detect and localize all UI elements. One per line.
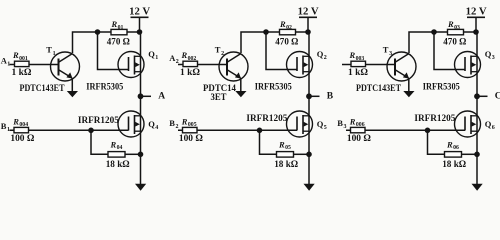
wire rail lower xyxy=(140,96,142,185)
svg-text:2: 2 xyxy=(221,51,224,57)
input B2 label xyxy=(169,118,178,130)
label Q5 xyxy=(317,119,327,131)
label R03 xyxy=(447,19,460,31)
p-MOSFET Q2 IRFR5305 xyxy=(287,52,313,78)
label T3 xyxy=(383,45,392,57)
svg-text:IRFR1205: IRFR1205 xyxy=(414,114,455,124)
transistor T1 (NPN) xyxy=(51,52,80,81)
svg-text:470 Ω: 470 Ω xyxy=(107,38,130,48)
svg-text:470 Ω: 470 Ω xyxy=(443,38,466,48)
svg-text:IRFR1205: IRFR1205 xyxy=(246,114,287,124)
svg-text:B: B xyxy=(1,121,7,131)
label Q1 xyxy=(148,49,158,61)
label Q3 xyxy=(485,49,495,61)
node junction (gate / pulldown) xyxy=(257,128,263,134)
ground arrow at rail bottom xyxy=(304,184,315,191)
value 1 kOhm xyxy=(348,68,368,78)
label T1 xyxy=(46,45,55,57)
svg-text:02: 02 xyxy=(286,25,292,31)
resistor R004 100 xyxy=(14,127,29,132)
value 470 Ohm xyxy=(443,38,466,48)
svg-text:6: 6 xyxy=(492,125,495,131)
svg-text:1 kΩ: 1 kΩ xyxy=(180,68,200,78)
svg-text:IRFR5305: IRFR5305 xyxy=(423,82,460,92)
label R003 xyxy=(349,50,365,62)
svg-text:R: R xyxy=(181,50,188,60)
svg-text:003: 003 xyxy=(356,56,365,62)
resistor R006 100 xyxy=(351,127,366,132)
wire input to Q gate xyxy=(10,129,129,131)
p-MOSFET Q1 IRFR5305 xyxy=(118,52,144,78)
svg-text:A: A xyxy=(158,92,165,102)
svg-text:R: R xyxy=(111,19,118,29)
label IRFR5305 xyxy=(423,82,460,92)
svg-text:18 kΩ: 18 kΩ xyxy=(106,160,130,170)
label T2 xyxy=(215,45,224,57)
node junction (gate / pulldown) xyxy=(425,128,431,134)
svg-text:03: 03 xyxy=(454,25,460,31)
node C xyxy=(474,92,500,102)
node junction (gate / pulldown) xyxy=(88,128,94,134)
wire to Q gate xyxy=(98,32,129,70)
label R05 xyxy=(278,139,291,151)
svg-text:Q: Q xyxy=(317,49,324,59)
resistor R002 1 k xyxy=(183,61,198,66)
value 470 Ohm xyxy=(107,38,130,48)
value 470 Ohm xyxy=(275,38,298,48)
value 100 Ohm xyxy=(347,134,371,144)
supply 12 V xyxy=(129,7,151,32)
node junction (R to rail) xyxy=(473,29,479,35)
svg-text:05: 05 xyxy=(285,145,291,151)
svg-text:Q: Q xyxy=(485,49,492,59)
svg-text:IRFR5305: IRFR5305 xyxy=(86,82,123,92)
value 100 Ohm xyxy=(10,134,34,144)
svg-text:18 kΩ: 18 kΩ xyxy=(442,160,466,170)
wire input to Q gate xyxy=(178,129,297,131)
svg-text:12 V: 12 V xyxy=(466,7,488,18)
svg-text:100 Ω: 100 Ω xyxy=(10,134,34,144)
label R04 xyxy=(110,139,123,151)
label part number PDTC143ET xyxy=(356,84,402,94)
svg-text:5: 5 xyxy=(324,125,327,131)
svg-text:R: R xyxy=(110,139,117,149)
svg-text:3ET: 3ET xyxy=(211,93,228,103)
label Q4 xyxy=(148,119,158,131)
wire rail (source-drain) xyxy=(140,32,142,96)
svg-text:005: 005 xyxy=(188,122,197,128)
svg-text:006: 006 xyxy=(356,122,365,128)
label R006 xyxy=(349,116,365,128)
svg-text:1 kΩ: 1 kΩ xyxy=(348,68,368,78)
ground arrow at T emitter xyxy=(235,91,246,97)
svg-text:001: 001 xyxy=(19,56,28,62)
svg-text:Q: Q xyxy=(148,49,155,59)
label IRFR1205 xyxy=(414,114,455,124)
wire emitter down xyxy=(240,78,242,92)
label R001 xyxy=(12,50,28,62)
svg-text:R: R xyxy=(278,139,285,149)
resistor R003 1 k xyxy=(351,61,366,66)
node junction (pulldown / rail) xyxy=(474,152,480,158)
resistor R001 1 k xyxy=(15,61,30,66)
input B3 label xyxy=(337,118,346,130)
svg-text:100 Ω: 100 Ω xyxy=(347,134,371,144)
value 18 kOhm xyxy=(106,160,130,170)
label R06 xyxy=(446,139,459,151)
svg-text:04: 04 xyxy=(117,145,123,151)
wire rail (source-drain) xyxy=(476,32,478,96)
supply 12 V xyxy=(298,7,320,32)
label IRFR5305 xyxy=(255,82,292,92)
resistor R005 100 xyxy=(183,127,198,132)
label part number PDTC143ET xyxy=(20,84,66,94)
wire to pulldown resistor xyxy=(91,130,108,154)
svg-text:1 kΩ: 1 kΩ xyxy=(12,68,32,78)
wire input to T base xyxy=(342,64,395,66)
label R002 xyxy=(181,50,197,62)
label IRFR5305 xyxy=(86,82,123,92)
svg-text:R: R xyxy=(279,19,286,29)
node A xyxy=(138,92,166,102)
label Q2 xyxy=(317,49,327,61)
input A2 label xyxy=(169,53,178,65)
svg-text:002: 002 xyxy=(188,56,197,62)
label Q6 xyxy=(485,119,495,131)
resistor R02 470 xyxy=(280,29,296,34)
svg-text:R: R xyxy=(12,50,19,60)
ground arrow at T emitter xyxy=(403,91,414,97)
input A1 label xyxy=(1,55,10,67)
wire rail lower xyxy=(308,96,310,185)
node junction (R to rail) xyxy=(137,29,143,35)
svg-text:Q: Q xyxy=(148,119,155,129)
svg-text:T: T xyxy=(215,45,221,55)
node junction (collector / R / gate) xyxy=(95,29,101,35)
svg-text:12 V: 12 V xyxy=(298,7,320,18)
value 18 kOhm xyxy=(442,160,466,170)
svg-text:T: T xyxy=(46,45,52,55)
svg-text:R: R xyxy=(349,50,356,60)
node junction (R to rail) xyxy=(305,29,311,35)
svg-text:2: 2 xyxy=(176,124,179,130)
label IRFR1205 xyxy=(246,114,287,124)
wire collector to top rail xyxy=(73,32,140,53)
node junction (pulldown / rail) xyxy=(306,152,312,158)
wire collector to top rail xyxy=(241,32,308,53)
svg-text:Q: Q xyxy=(485,119,492,129)
svg-text:T: T xyxy=(383,45,389,55)
wire emitter down xyxy=(71,78,73,92)
svg-text:004: 004 xyxy=(19,122,28,128)
supply 12 V xyxy=(466,7,488,32)
wire pulldown to rail xyxy=(462,153,478,155)
wire pulldown to rail xyxy=(125,153,141,155)
wire rail (source-drain) xyxy=(308,32,310,96)
wire to Q gate xyxy=(266,32,297,70)
resistor R05 18 k xyxy=(277,152,294,158)
label R005 xyxy=(181,116,197,128)
label IRFR1205 xyxy=(78,116,119,126)
svg-text:3: 3 xyxy=(492,55,495,61)
svg-text:IRFR1205: IRFR1205 xyxy=(78,116,119,126)
wire pulldown to rail xyxy=(294,153,310,155)
resistor R01 470 xyxy=(111,29,127,34)
svg-text:12 V: 12 V xyxy=(129,7,151,18)
svg-text:4: 4 xyxy=(155,125,158,131)
wire to Q gate xyxy=(434,32,465,70)
ground arrow at T emitter xyxy=(67,91,78,97)
svg-text:R: R xyxy=(181,116,188,126)
n-MOSFET Q4 IRFR1205 xyxy=(118,111,144,137)
value 1 kOhm xyxy=(180,68,200,78)
wire emitter down xyxy=(408,78,410,92)
svg-text:R: R xyxy=(447,19,454,29)
label R004 xyxy=(12,116,28,128)
svg-text:PDTC143ET: PDTC143ET xyxy=(20,84,66,94)
svg-text:18 kΩ: 18 kΩ xyxy=(274,160,298,170)
svg-text:R: R xyxy=(446,139,453,149)
input B1 label xyxy=(1,121,10,133)
label R01 xyxy=(111,19,124,31)
wire to pulldown resistor xyxy=(260,130,277,154)
resistor R04 18 k xyxy=(108,152,125,158)
wire collector to top rail xyxy=(409,32,476,53)
ground arrow at rail bottom xyxy=(472,184,483,191)
svg-text:1: 1 xyxy=(155,55,158,61)
transistor T3 (NPN) xyxy=(387,52,416,81)
svg-text:01: 01 xyxy=(118,25,124,31)
svg-text:2: 2 xyxy=(324,55,327,61)
n-MOSFET Q6 IRFR1205 xyxy=(455,111,481,137)
svg-text:B: B xyxy=(169,118,175,128)
n-MOSFET Q5 IRFR1205 xyxy=(287,111,313,137)
value 18 kOhm xyxy=(274,160,298,170)
label part number PDTC143ET xyxy=(203,84,236,103)
svg-text:R: R xyxy=(12,116,19,126)
node junction (pulldown / rail) xyxy=(138,152,144,158)
resistor R03 470 xyxy=(448,29,464,34)
node junction (collector / R / gate) xyxy=(263,29,269,35)
label R02 xyxy=(279,19,292,31)
svg-text:1: 1 xyxy=(53,51,56,57)
svg-text:3: 3 xyxy=(389,51,392,57)
svg-text:IRFR5305: IRFR5305 xyxy=(255,82,292,92)
svg-text:3: 3 xyxy=(344,124,347,130)
value 100 Ohm xyxy=(179,134,203,144)
node B xyxy=(306,92,334,102)
wire input to T base xyxy=(178,64,227,66)
svg-text:Q: Q xyxy=(317,119,324,129)
svg-text:B: B xyxy=(327,92,334,102)
p-MOSFET Q3 IRFR5305 xyxy=(455,52,481,78)
value 1 kOhm xyxy=(12,68,32,78)
svg-text:C: C xyxy=(495,92,500,102)
node junction (collector / R / gate) xyxy=(431,29,437,35)
wire to pulldown resistor xyxy=(428,130,445,154)
svg-text:100 Ω: 100 Ω xyxy=(179,134,203,144)
wire input to T base xyxy=(10,64,59,66)
svg-text:PDTC143ET: PDTC143ET xyxy=(356,84,402,94)
wire input to Q gate xyxy=(346,129,465,131)
svg-text:B: B xyxy=(337,118,343,128)
svg-text:470 Ω: 470 Ω xyxy=(275,38,298,48)
resistor R06 18 k xyxy=(445,152,462,158)
ground arrow at rail bottom xyxy=(135,184,146,191)
wire rail lower xyxy=(476,96,478,185)
svg-text:R: R xyxy=(349,116,356,126)
transistor T2 (NPN) xyxy=(219,52,248,81)
svg-text:06: 06 xyxy=(453,145,459,151)
